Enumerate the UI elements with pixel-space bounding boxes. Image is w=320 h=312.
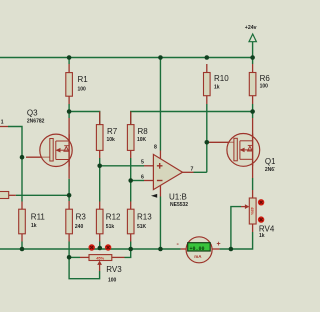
- svg-text:+: +: [217, 241, 221, 248]
- svg-text:+0.00: +0.00: [190, 246, 205, 252]
- svg-text:45%: 45%: [250, 207, 255, 215]
- svg-text:R8: R8: [138, 127, 149, 136]
- svg-text:1k: 1k: [259, 233, 265, 239]
- svg-text:51K: 51K: [137, 224, 147, 230]
- svg-text:RV3: RV3: [106, 265, 122, 274]
- svg-text:6: 6: [141, 174, 144, 180]
- svg-text:100: 100: [78, 87, 87, 93]
- svg-text:Q1: Q1: [265, 157, 275, 166]
- svg-text:2N6782: 2N6782: [265, 167, 275, 173]
- svg-text:51k: 51k: [106, 224, 115, 230]
- svg-text:U1:B: U1:B: [169, 192, 187, 201]
- svg-text:NE5532: NE5532: [170, 202, 188, 208]
- svg-text:R11: R11: [31, 212, 46, 221]
- svg-text:+24v: +24v: [245, 25, 257, 31]
- svg-text:7: 7: [191, 167, 194, 173]
- svg-text:5: 5: [141, 160, 144, 166]
- svg-text:2N6782: 2N6782: [27, 119, 45, 125]
- svg-text:R13: R13: [137, 212, 152, 221]
- svg-text:Q3: Q3: [27, 108, 38, 117]
- svg-text:8: 8: [154, 145, 157, 151]
- svg-text:R1: R1: [78, 75, 89, 84]
- svg-text:10K: 10K: [137, 137, 147, 143]
- svg-text:1k: 1k: [214, 84, 220, 90]
- svg-text:R12: R12: [106, 212, 121, 221]
- svg-text:1k: 1k: [31, 223, 37, 229]
- svg-text:mA: mA: [194, 254, 202, 259]
- svg-text:10k: 10k: [107, 137, 116, 143]
- svg-text:45%: 45%: [96, 256, 104, 261]
- svg-text:1: 1: [1, 119, 4, 125]
- svg-text:R3: R3: [76, 212, 87, 221]
- svg-text:R7: R7: [107, 127, 118, 136]
- svg-text:R10: R10: [214, 74, 229, 83]
- svg-text:R6: R6: [260, 74, 271, 83]
- svg-text:100: 100: [108, 278, 117, 284]
- svg-text:100: 100: [260, 84, 269, 90]
- svg-text:240: 240: [75, 224, 84, 230]
